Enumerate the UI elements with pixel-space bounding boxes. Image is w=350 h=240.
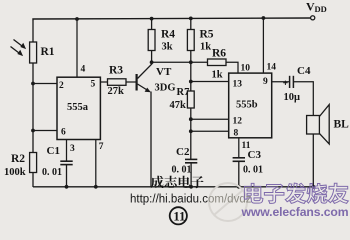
R6 value 1k — [212, 70, 223, 81]
node: junction pin14/rail — [262, 16, 266, 20]
wire: pin 9 to C4 — [272, 81, 289, 83]
node: C2/ground — [189, 185, 193, 189]
C2 value 0.01 — [172, 165, 192, 176]
C4 value 10u — [284, 92, 301, 103]
C1 value 0.01 — [42, 167, 62, 178]
watermark: outlined 电子发烧友 — [244, 183, 348, 203]
pin 2 number — [59, 81, 64, 91]
wire: speaker to ground rail — [312, 134, 314, 187]
node: junction pin13 branch — [189, 80, 193, 84]
wire: C4 to speaker — [293, 82, 313, 116]
node: junction R5/R6 wire — [189, 60, 193, 64]
R1 label — [41, 46, 55, 58]
wire: left rail (R1/R2 branch) — [32, 21, 34, 43]
C2 label — [176, 146, 190, 158]
R5 label — [200, 29, 214, 41]
pin 9 number — [263, 77, 268, 87]
wire: pin 12 of 555b — [191, 118, 229, 120]
wire: pin 5 to R3 — [100, 81, 107, 83]
R6 label — [212, 48, 226, 60]
pin 7 number — [99, 142, 104, 152]
resistor R7 — [187, 91, 194, 159]
transistor VT (base bar) — [136, 74, 138, 91]
555b label — [236, 100, 258, 111]
svg-text:http://hi.baidu.com/dvdz: http://hi.baidu.com/dvdz — [130, 194, 252, 206]
transistor VT collector — [138, 64, 153, 79]
R3 value 27k — [108, 86, 125, 97]
resistor R4 — [148, 19, 155, 62]
node: junction R2/pin6 — [31, 129, 35, 133]
wire: pin 13 of 555b — [191, 81, 229, 83]
capacitor C3 — [233, 158, 245, 187]
pin 3 number — [70, 144, 75, 154]
op IC 555a box — [57, 77, 100, 139]
VDD terminal — [311, 16, 315, 20]
node: junction R5/rail — [189, 17, 193, 21]
pin 4 number — [81, 65, 86, 75]
wire: emitter to ground rail — [150, 92, 152, 188]
pin 10 number — [241, 64, 251, 74]
resistor R2 — [30, 153, 37, 188]
pin 6 number — [61, 128, 66, 138]
node: junction R4/rail — [150, 17, 154, 21]
resistor R1 — [30, 42, 37, 153]
transistor VT emitter with arrow — [138, 84, 151, 92]
node: junction pin4/rail — [75, 17, 79, 21]
C3 label — [248, 149, 262, 161]
node: junction R1/pin2 — [31, 82, 35, 86]
R4 label — [161, 29, 175, 41]
pin 13 number — [233, 80, 243, 90]
watermark: www.elecfans.com — [241, 205, 349, 219]
pin 12 number — [233, 117, 243, 127]
R7 label — [177, 87, 190, 98]
capacitor C4 (polarized) — [283, 76, 293, 88]
capacitor C1 — [60, 161, 72, 187]
555a label — [67, 102, 89, 113]
circled figure number 11 — [170, 207, 187, 224]
svg-text:www.elecfans.com: www.elecfans.com — [241, 205, 349, 219]
resistor R5 — [187, 19, 194, 63]
wire: R5 node down to R7 — [190, 62, 192, 91]
faint watermark circle behind baidu text — [209, 183, 247, 221]
text: 成志电子 (black) — [151, 176, 204, 189]
BL label — [334, 119, 350, 131]
C4 label — [297, 65, 311, 77]
svg-text:11: 11 — [173, 209, 185, 224]
wire: top VDD rail — [33, 18, 311, 21]
wire: pin 2 of 555a — [33, 83, 57, 85]
R2 label — [11, 153, 25, 165]
node: pin7/ground — [94, 185, 98, 189]
wire: pin 3 stub of 555a to C1 — [66, 140, 68, 161]
speaker BL — [307, 105, 330, 144]
node: C1/ground — [65, 185, 69, 189]
R4 value 3k — [162, 42, 173, 53]
wire: pin 11 stub to C3 — [238, 138, 240, 158]
wire: pin 14 stub from rail — [262, 18, 264, 73]
resistor R6 — [208, 59, 239, 73]
capacitor C2 — [185, 159, 197, 187]
pin 8 number — [234, 129, 239, 139]
VDD label — [306, 0, 327, 14]
node: junction pin12 branch — [189, 117, 193, 121]
node: junction pin8 branch — [189, 129, 193, 133]
text: http://hi.baidu.com/cvdz — [130, 194, 252, 206]
R5 value 1k — [200, 42, 211, 53]
node: speaker/ground — [311, 185, 315, 189]
node: junction collector/R4 — [150, 60, 154, 64]
C1 label — [47, 145, 60, 157]
node: C3/ground — [237, 185, 241, 189]
wire: pin 8 of 555b — [191, 130, 229, 132]
R1 light arrows (photoresistor) — [11, 40, 26, 56]
wire: pin 4 stub from rail — [76, 19, 78, 77]
VT label — [156, 66, 172, 78]
pin 5 number — [91, 80, 96, 90]
wire: collector node to R6 — [152, 61, 208, 63]
wire: ground rail (bottom) — [33, 186, 313, 188]
C3 value 0.01 — [243, 165, 263, 176]
op IC 555b box — [229, 73, 272, 138]
wire: pin 6 of 555a — [33, 130, 57, 132]
R7 value 47k — [170, 100, 187, 111]
R2 value 100k — [4, 167, 26, 178]
pin 11 number — [242, 141, 251, 151]
pin 14 number — [267, 63, 277, 73]
3DG label — [155, 83, 176, 94]
wire: pin 7 stub of 555a to ground — [95, 140, 97, 187]
resistor R3 — [108, 79, 136, 86]
R3 label — [109, 65, 123, 77]
